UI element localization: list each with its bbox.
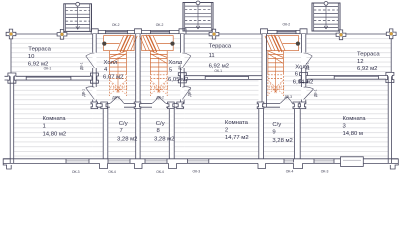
svg-text:С/у: С/у <box>156 121 165 127</box>
bathroom su9 east wall (room 3 west) <box>294 104 296 159</box>
window OK-1 room3 glazing <box>334 75 378 77</box>
svg-text:1: 1 <box>43 124 46 130</box>
window OK-1 room1 glazing <box>26 76 71 78</box>
room 2 top wall (terrace 11 floor edge) with window OK-1 <box>181 75 262 77</box>
party wall unit1-unit2 <box>135 34 137 159</box>
door DV-2 hall5 to su8 <box>152 97 166 104</box>
svg-text:7: 7 <box>120 128 123 134</box>
svg-text:10: 10 <box>28 54 35 60</box>
hall 4 floor hatch <box>97 34 136 103</box>
bathroom su8 east wall <box>168 104 170 159</box>
hall 5 east wall, door openings to terrace 11 and room 2 <box>180 34 182 53</box>
svg-text:14,80 м: 14,80 м <box>343 131 363 137</box>
bathroom su7 west wall <box>102 104 104 159</box>
svg-text:ОК-4: ОК-4 <box>286 169 294 173</box>
svg-text:ДВ-1: ДВ-1 <box>80 62 84 70</box>
bottom wall pilaster bumps <box>100 162 108 169</box>
room 2 lower-left ell floor hatch <box>175 108 185 159</box>
svg-text:ОК-4: ОК-4 <box>108 170 116 174</box>
svg-text:ДВ-2: ДВ-2 <box>156 95 164 99</box>
svg-text:ДВ-1: ДВ-1 <box>306 62 310 70</box>
svg-text:С/у: С/у <box>119 121 128 127</box>
room 3 bay window <box>341 157 364 167</box>
bottom-right corner pilaster <box>390 159 398 169</box>
room 3 upper floor hatch <box>307 80 389 159</box>
window OK-2 glazing hall4 <box>106 31 128 33</box>
svg-text:Терраса: Терраса <box>357 51 380 57</box>
door DV-1 hall4 to room 1 <box>86 87 95 100</box>
svg-text:Комната: Комната <box>225 120 249 126</box>
stair in hall 6 <box>267 36 299 51</box>
svg-text:ОК-2: ОК-2 <box>112 23 120 27</box>
exterior stair to terrace 12 <box>312 2 340 32</box>
middle wall hall5/su8 with door opening DV-2 <box>140 103 152 105</box>
middle wall hall6/su9 with door opening DV-3 <box>259 103 280 105</box>
terrace 12 floor hatch <box>307 35 391 75</box>
svg-text:6,04 м2: 6,04 м2 <box>293 79 313 85</box>
window OK-2 glazing hall6 <box>277 31 296 33</box>
bathroom su9 floor hatch <box>264 108 295 159</box>
stair in hall 5 newel post <box>170 42 174 46</box>
terrace 12 outer edge <box>306 33 391 35</box>
svg-text:ОК-4: ОК-4 <box>156 170 164 174</box>
room-top wall pilaster bumps <box>8 73 16 83</box>
room 2 upper floor hatch <box>184 80 258 159</box>
terrace column at left corner <box>6 29 16 39</box>
bathroom su8 floor hatch <box>140 108 169 159</box>
room 3 lower-left ell floor hatch <box>300 108 306 159</box>
hall 5 top wall with window OK-2 <box>140 29 184 31</box>
hall 4 west wall, door openings DV-1 to terrace and room 1 <box>92 34 94 53</box>
top wall pilaster bumps <box>91 29 98 34</box>
left outer wall of room 1 <box>9 76 11 163</box>
terrace column at right corner <box>386 29 396 39</box>
party wall unit2-unit3 lower (room2/su9) <box>258 104 260 159</box>
right outer wall of room 3 <box>387 76 389 163</box>
middle wall junction pilasters <box>91 102 98 109</box>
bottom outer wall <box>4 158 399 160</box>
door DV-1 hall6 to room 3 <box>304 87 314 99</box>
svg-text:3,28 м2: 3,28 м2 <box>117 136 137 142</box>
terrace column left of stair 1 <box>57 29 67 39</box>
party wall unit2-unit3 upper (terrace11/hall6) <box>261 34 263 108</box>
svg-text:3,28 м2: 3,28 м2 <box>272 138 292 144</box>
room 3 top wall (terrace 12 floor edge) with window OK-1 <box>302 75 392 77</box>
terrace column right of stair 2 <box>209 29 219 39</box>
terrace 11 floor hatch <box>185 35 263 76</box>
svg-text:С/у: С/у <box>272 122 281 128</box>
svg-text:ДВ-1: ДВ-1 <box>178 62 182 70</box>
svg-text:ДВ-2: ДВ-2 <box>112 95 120 99</box>
svg-text:12: 12 <box>357 59 364 65</box>
svg-text:ДВ-3: ДВ-3 <box>285 95 293 99</box>
terrace 11 outer edge <box>184 33 262 35</box>
stair in hall 4 newel post <box>102 42 106 46</box>
room 1 lower-right ell floor hatch <box>92 108 103 159</box>
window OK-1 room2 glazing <box>205 75 248 77</box>
hall 6 east wall, door openings to terrace 12 and room 3 <box>301 34 303 53</box>
stair in hall 4 <box>104 36 135 51</box>
svg-text:ДВ-1: ДВ-1 <box>314 89 318 97</box>
terrace 10 floor hatch <box>12 35 93 77</box>
door DV-1 hall4 to terrace 10 <box>86 53 95 68</box>
door DV-1 hall5 to room 2 <box>182 87 191 100</box>
svg-text:2: 2 <box>225 127 228 133</box>
door DV-1 hall5 to terrace 11 <box>182 53 191 68</box>
exterior stair to terrace 11 <box>183 1 213 31</box>
svg-text:Комната: Комната <box>343 116 367 122</box>
bathroom su7 floor hatch <box>108 108 136 159</box>
svg-text:Терраса: Терраса <box>209 44 232 50</box>
svg-text:6,05 м2: 6,05 м2 <box>168 77 188 83</box>
bottom wall windows <box>66 159 89 161</box>
svg-text:9: 9 <box>272 130 275 136</box>
stair in hall 6 newel post <box>296 42 300 46</box>
bottom-left corner pilaster <box>3 159 11 169</box>
door DV-1 hall6 to terrace 12 <box>304 53 313 68</box>
hall 6 top wall with window OK-2 <box>262 29 306 31</box>
hall 5 floor hatch <box>141 34 181 103</box>
svg-text:11: 11 <box>209 53 215 59</box>
door DV-2 hall4 to su7 <box>110 97 124 104</box>
room 1 upper floor hatch <box>14 81 92 159</box>
svg-text:ДВ-1: ДВ-1 <box>82 89 86 97</box>
stair in hall 5 <box>142 36 174 51</box>
room 1 top wall (terrace 10 floor edge) with window OK-1 <box>5 75 97 77</box>
svg-text:Терраса: Терраса <box>28 47 51 53</box>
svg-text:ОК-2: ОК-2 <box>156 23 164 27</box>
svg-text:Холл: Холл <box>104 60 118 66</box>
svg-text:6,92 м2: 6,92 м2 <box>357 66 377 72</box>
exterior stair to terrace 10 <box>64 2 92 31</box>
svg-text:Комната: Комната <box>43 116 67 122</box>
svg-text:3,28 м2: 3,28 м2 <box>154 136 174 142</box>
svg-text:ОК-3: ОК-3 <box>193 170 201 174</box>
svg-text:ОК-1: ОК-1 <box>44 67 52 71</box>
svg-text:ДВ-1: ДВ-1 <box>188 89 192 97</box>
hall 6 floor hatch <box>267 34 301 103</box>
terrace 10 outer edge <box>11 33 93 35</box>
svg-text:6,07 м2: 6,07 м2 <box>103 75 123 81</box>
walls group <box>3 29 398 169</box>
svg-text:ОК-3: ОК-3 <box>321 170 329 174</box>
svg-text:ОК-3: ОК-3 <box>72 170 80 174</box>
svg-text:ОК-2: ОК-2 <box>283 23 291 27</box>
svg-text:14,80 м2: 14,80 м2 <box>43 131 67 137</box>
window OK-2 glazing hall5 <box>151 31 170 33</box>
svg-text:ОК-1: ОК-1 <box>214 69 222 73</box>
hall 4 top wall with window OK-2 <box>93 29 140 31</box>
middle wall hall4/su7 with door opening DV-2 <box>93 103 110 105</box>
terrace column right of stair 3 <box>336 30 346 40</box>
door DV-3 hall6 to su9 <box>280 97 292 104</box>
svg-text:14,77 м2: 14,77 м2 <box>225 135 249 141</box>
